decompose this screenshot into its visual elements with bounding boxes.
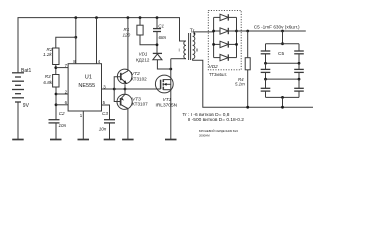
wire R2 to R3: [55, 65, 57, 75]
svg-text:R1: R1: [124, 27, 130, 32]
svg-text:C5 -1mF 630v (x6шт.): C5 -1mF 630v (x6шт.): [254, 25, 300, 30]
wire output plus rail: [237, 30, 306, 32]
transformer Tr primary winding I: [184, 41, 186, 59]
capacitor C5a: [265, 44, 267, 51]
wire VD1 to drain node: [157, 60, 170, 69]
svg-text:IRL3705N: IRL3705N: [156, 103, 178, 109]
node top rail junction dots: [74, 16, 158, 38]
svg-text:NE555: NE555: [78, 83, 95, 89]
wire pin 3 to bases/emitters: [102, 88, 126, 90]
wire VT2 collector to rail: [127, 18, 129, 71]
ground C3: [104, 139, 116, 141]
svg-text:БРОНЕВОЙ СЕРДЕЧНИК Б22: БРОНЕВОЙ СЕРДЕЧНИК Б22: [199, 129, 238, 133]
wire pin 1 to ground: [82, 111, 84, 139]
svg-text:КТ3107: КТ3107: [132, 102, 148, 107]
transistor Q VT3 KT3107: [117, 94, 132, 109]
wire battery to ground: [17, 102, 19, 139]
ground VT1: [165, 139, 177, 141]
wire anode rail: [213, 17, 215, 57]
ground pin1: [78, 139, 90, 141]
svg-text:II: II: [196, 48, 198, 53]
transistor Q VT2 KT3102: [117, 69, 132, 84]
wire pin 5 to C3: [102, 105, 110, 120]
svg-text:68n: 68n: [159, 35, 167, 40]
svg-text:5: 5: [103, 100, 106, 105]
capacitor C5f: [298, 79, 300, 88]
ground VT3: [122, 139, 134, 141]
resistor R3: [53, 75, 59, 88]
capacitor C5b: [298, 44, 300, 51]
wire VT3 collector to ground: [127, 109, 129, 140]
diode VD2-3: [214, 43, 220, 45]
capacitor C5d: [298, 63, 300, 69]
diode VD1 KD212: [153, 52, 162, 54]
svg-text:КД212: КД212: [136, 57, 150, 62]
svg-text:C1: C1: [158, 24, 164, 29]
capacitor C3: [104, 120, 115, 123]
wire top rail from battery to transformer: [18, 18, 186, 73]
node drain junction: [169, 68, 172, 71]
capacitor C2: [49, 120, 60, 123]
svg-text:VD1: VD1: [139, 52, 148, 57]
op-amp U1 NE555: [68, 64, 101, 111]
wire R2 branch to pin8 column: [56, 37, 76, 48]
node base rail junction: [113, 88, 116, 91]
wire tie bar 1: [266, 62, 300, 64]
wire C1 to VD1: [156, 32, 158, 54]
svg-text:5.1m: 5.1m: [235, 82, 245, 87]
wire secondary top to rectifier: [193, 31, 214, 33]
resistor R4: [247, 31, 249, 58]
svg-text:C3: C3: [102, 111, 108, 116]
node R1/C1 junction: [156, 43, 159, 46]
wire pin 7: [56, 67, 68, 69]
svg-text:2000НМ: 2000НМ: [199, 133, 210, 137]
node pin2 junction: [55, 93, 58, 96]
wire emitters to gate: [125, 88, 161, 90]
ground battery: [12, 139, 24, 141]
svg-text:1.2k: 1.2k: [43, 52, 52, 57]
svg-text:10n: 10n: [59, 123, 67, 128]
node C5 top junction: [281, 30, 284, 33]
node emitter junction: [124, 88, 127, 91]
svg-text:ТТ3и4шт.: ТТ3и4шт.: [209, 72, 227, 77]
transformer secondary winding II: [193, 32, 195, 59]
diode VD2-1: [214, 16, 220, 18]
node R2/R3 junction: [54, 66, 57, 69]
rectifier VD2 dashed box: [208, 10, 241, 69]
capacitor bank C5: [282, 31, 284, 44]
svg-text:1: 1: [80, 113, 83, 118]
node rectifier rail dots: [212, 30, 238, 46]
wire VT1 source to ground: [170, 90, 172, 140]
wire base rail: [114, 77, 121, 102]
diode VD2-2: [214, 30, 220, 32]
capacitor C5c: [265, 63, 267, 69]
svg-text:7: 7: [65, 63, 68, 68]
node R4 top junction: [246, 30, 249, 33]
wire merge bar: [266, 96, 300, 98]
svg-text:КТ3102: КТ3102: [131, 76, 147, 81]
svg-text:II -500 витков D= 0.18-0.2: II -500 витков D= 0.18-0.2: [188, 117, 245, 123]
node R4 bottom junction: [246, 106, 249, 109]
capacitor C1: [156, 18, 158, 29]
transistor VT1 IRL3705N mosfet: [170, 59, 172, 80]
wire C2 to ground: [55, 123, 57, 139]
svg-text:9V: 9V: [23, 103, 30, 109]
wire cathode rail: [236, 17, 238, 57]
resistor R2: [53, 48, 59, 65]
svg-text:Bat1: Bat1: [21, 68, 32, 74]
wire bank to minus rail: [282, 97, 284, 107]
svg-text:C5: C5: [278, 51, 284, 57]
svg-text:6.8k: 6.8k: [43, 80, 52, 85]
transformer core: [188, 33, 190, 60]
wire tie bar 2: [266, 78, 300, 80]
wire pin4 column: [96, 18, 98, 64]
wire pin 2: [56, 93, 68, 95]
svg-text:10n: 10n: [99, 127, 107, 132]
svg-text:U1: U1: [85, 75, 92, 81]
svg-text:VT1: VT1: [163, 97, 172, 103]
wire pin 6: [56, 104, 68, 106]
svg-text:R3: R3: [45, 74, 51, 79]
svg-text:C2: C2: [59, 111, 65, 116]
svg-text:120: 120: [123, 33, 131, 38]
diode VD2-4: [214, 57, 220, 59]
resistor R1: [139, 18, 141, 26]
wire secondary bottom to output minus rail: [193, 59, 313, 107]
node pin6 junction: [55, 103, 58, 106]
wire primary bottom to drain node: [171, 58, 186, 60]
wire R1 bottom to C1 bottom: [140, 35, 157, 45]
wire C3 to ground: [109, 123, 111, 139]
wire R3 to C2: [55, 87, 57, 120]
battery Bat1: [12, 73, 24, 102]
capacitor C5e: [265, 79, 267, 88]
svg-text:VD2: VD2: [209, 64, 218, 69]
node polarity dot: [193, 33, 195, 35]
wire pin8 column: [75, 18, 77, 64]
svg-text:I: I: [179, 48, 180, 53]
ground C2: [50, 139, 62, 141]
